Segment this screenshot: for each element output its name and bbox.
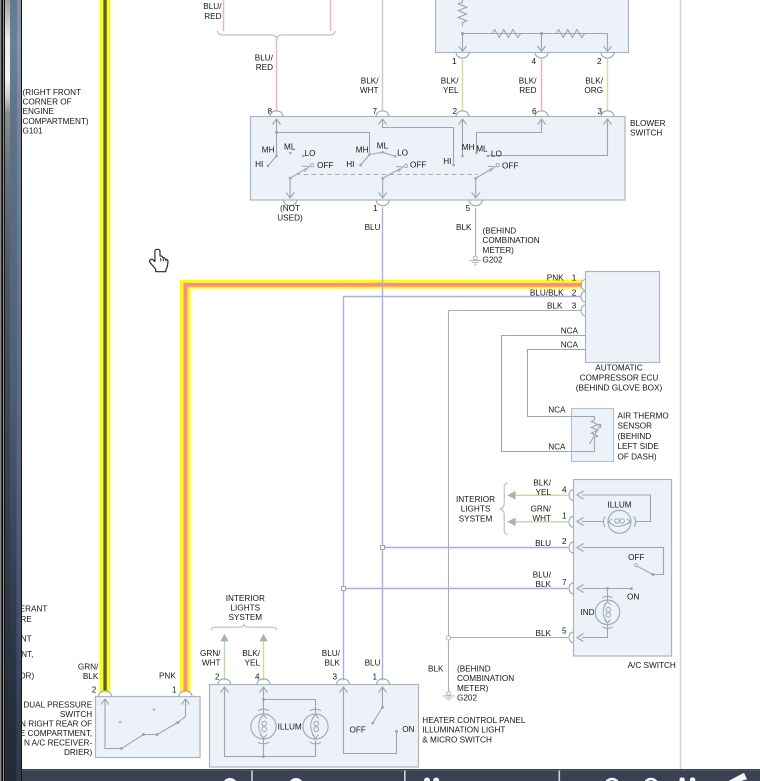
connector arc lamp1 bottom	[258, 742, 269, 744]
svg-text:ILLUM: ILLUM	[278, 722, 302, 731]
lamp ILLUM ac	[608, 510, 631, 533]
svg-text:MH: MH	[462, 143, 475, 152]
svg-text:SYSTEM: SYSTEM	[459, 514, 493, 523]
automatic compressor ECU box U1	[586, 272, 660, 363]
svg-text:PNK: PNK	[159, 671, 176, 680]
svg-text:BLK: BLK	[83, 672, 99, 681]
connector arc blower pin 3	[601, 111, 614, 117]
svg-text:6: 6	[532, 107, 537, 116]
svg-text:CORNER OF: CORNER OF	[23, 98, 72, 107]
svg-text:HEATER CONTROL PANEL: HEATER CONTROL PANEL	[422, 716, 526, 725]
arrow up at pin 2	[459, 119, 467, 125]
connector arc heater pin 2	[218, 679, 231, 685]
wire GRN/BLK highlighted (yellow band)	[100, 0, 111, 692]
svg-text:NT: NT	[21, 634, 32, 643]
wire BLK pin 5 to ground	[475, 208, 477, 257]
connector arc blower pin 5	[469, 200, 482, 206]
svg-text:7: 7	[562, 578, 567, 587]
left window sidebar	[0, 0, 22, 781]
arrow up inside heater pin 3	[340, 687, 348, 693]
connector arc IND bottom	[602, 627, 612, 629]
node junction dot mid	[540, 32, 543, 35]
svg-text:RED: RED	[519, 86, 536, 95]
svg-text:SYSTEM: SYSTEM	[228, 613, 262, 622]
arrow up at pin 3	[604, 119, 612, 125]
svg-text:IND: IND	[580, 608, 594, 617]
node junction dot rail	[262, 755, 265, 758]
wire heater pin2 down to rail	[225, 687, 316, 757]
dashed mechanical link line	[296, 174, 478, 176]
connector arc blower pin 6	[535, 111, 548, 117]
wire heater pin3 to ON contact	[344, 687, 397, 754]
svg-text:LO: LO	[491, 150, 502, 159]
connector arc lamp right	[634, 517, 636, 527]
arrow up BLK/YEL bottom	[259, 634, 267, 642]
svg-text:2: 2	[562, 537, 567, 546]
svg-text:5: 5	[562, 627, 567, 636]
thermistor RT1 zigzag	[591, 420, 597, 446]
svg-text:OFF: OFF	[317, 161, 333, 170]
svg-text:ML: ML	[284, 142, 296, 151]
svg-text:BLU: BLU	[365, 659, 381, 668]
wire BLK/WHT to blower switch pin 7	[382, 0, 384, 112]
cursor hand pointer	[150, 249, 168, 271]
svg-text:5: 5	[465, 204, 470, 213]
node junction circle BLK	[446, 636, 450, 640]
blower resistor box	[436, 0, 629, 53]
wire HI-MH group1	[268, 156, 277, 166]
node junction dot IND	[606, 587, 609, 590]
svg-text:BLU: BLU	[535, 539, 551, 548]
wire sensor bottom	[572, 446, 595, 451]
contact ML group3	[475, 151, 478, 154]
svg-text:BLU: BLU	[365, 223, 381, 232]
svg-text:MH: MH	[262, 146, 275, 155]
svg-text:HI: HI	[443, 157, 451, 166]
contact MH group3	[461, 155, 464, 158]
resistor R2 (horizontal zigzag)	[492, 30, 521, 38]
svg-text:GRN/: GRN/	[78, 662, 99, 671]
wire BLK/YEL stub to interior lights	[515, 494, 569, 496]
contact LO group2	[394, 155, 397, 158]
connector arc lamp left	[603, 517, 605, 527]
connector arc blower NOT USED pin	[284, 200, 297, 206]
contact dot DPS d	[176, 721, 179, 724]
wire pin2 into switch to group3 MH	[462, 119, 464, 156]
contact ON dot heater	[395, 730, 398, 733]
contact dot arm end	[371, 722, 374, 725]
switch arm group1	[290, 168, 306, 178]
svg-text:4: 4	[562, 485, 567, 494]
contact dot DPS b	[142, 733, 145, 736]
contact LO group3	[487, 155, 490, 158]
svg-text:PNK: PNK	[547, 274, 564, 283]
wire AC pin2 to off switch	[582, 548, 664, 575]
svg-text:BLK: BLK	[456, 223, 472, 232]
svg-text:ILLUM: ILLUM	[607, 501, 631, 510]
wire AC pin1 to lamp	[582, 521, 604, 523]
air thermo sensor box	[572, 409, 614, 462]
contact OFF circle ac	[635, 564, 638, 567]
svg-text:YEL: YEL	[443, 86, 459, 95]
switch arm group3	[476, 168, 492, 178]
wire pin7 rail to group3 HI	[383, 119, 454, 165]
bottom taskbar	[22, 769, 760, 781]
wire AC pin4 to lamp loop	[582, 495, 651, 522]
svg-text:SWITCH: SWITCH	[60, 710, 92, 719]
wire NCA lower	[528, 350, 586, 417]
wire heater pin4 to lamps	[263, 687, 265, 714]
switch wafer 2 contacts and arm	[346, 142, 426, 199]
svg-text:OFF: OFF	[410, 161, 426, 170]
connector arc heater pin 3	[337, 679, 350, 685]
switch arm ac off	[638, 567, 653, 575]
connector arc DPS pin 2	[99, 691, 112, 697]
svg-text:1: 1	[172, 685, 177, 694]
svg-text:BLK: BLK	[428, 665, 444, 674]
contact dot DPS floating 1	[119, 721, 122, 724]
arrow down group2	[379, 193, 387, 199]
svg-text:G202: G202	[483, 256, 503, 265]
svg-text:LIGHTS: LIGHTS	[461, 505, 491, 514]
svg-text:NCA: NCA	[548, 443, 566, 452]
connector arc lamp1 top	[258, 709, 269, 711]
dual pressure switch box S1	[96, 697, 201, 758]
arrow up inside heater pin 4	[260, 687, 268, 693]
node junction dot heater	[262, 698, 265, 701]
svg-text:AUTOMATIC: AUTOMATIC	[595, 364, 643, 373]
contact dot DPS a	[120, 747, 123, 750]
svg-text:(BEHIND GLOVE BOX): (BEHIND GLOVE BOX)	[576, 383, 663, 392]
svg-text:METER): METER)	[483, 246, 515, 255]
wire BLK AC pin5 to junction	[451, 637, 568, 639]
svg-text:(RIGHT FRONT: (RIGHT FRONT	[23, 88, 82, 97]
contact HI group3	[452, 164, 455, 167]
wire to IND lamp	[607, 589, 609, 601]
svg-text:OFF: OFF	[628, 553, 644, 562]
arrow up at pin 7	[379, 119, 387, 125]
pivot group1	[289, 177, 292, 180]
wire heater pin1 to pivot	[382, 687, 384, 707]
svg-text:1: 1	[562, 512, 567, 521]
svg-text:1: 1	[372, 673, 377, 682]
arrow up at pin 8	[273, 119, 281, 125]
svg-text:USED): USED)	[277, 214, 303, 223]
connector arc blower pin 8	[270, 111, 283, 117]
wire BLU/RED vertical left	[223, 0, 225, 31]
svg-text:ENGINE: ENGINE	[23, 107, 55, 116]
wire (drop to resistor pin 2)	[607, 34, 609, 52]
svg-text:HI: HI	[346, 160, 354, 169]
wire PNK highlighted horizontal (yellow band)	[180, 280, 582, 289]
arrow down group3	[472, 193, 480, 199]
wire BLK junction to ground	[448, 640, 450, 691]
wire PNK core horizontal	[184, 283, 582, 287]
switch contact dot ac	[652, 573, 655, 576]
contact HI group2	[359, 164, 362, 167]
svg-text:BLK/: BLK/	[585, 77, 603, 86]
svg-text:1: 1	[452, 57, 457, 66]
switch arm heater micro switch	[373, 707, 382, 722]
svg-text:BLK/: BLK/	[361, 77, 379, 86]
svg-text:RED: RED	[204, 12, 221, 21]
connector arc heater pin 1	[377, 679, 390, 685]
connector arc resistor pin 1	[456, 52, 469, 58]
svg-text:2: 2	[92, 685, 97, 694]
arrow up inside heater pin 2	[221, 687, 229, 693]
wire DPS contacts chain	[105, 699, 186, 749]
lamp IND	[595, 600, 619, 624]
pivot group3	[474, 177, 477, 180]
arrow up inside DPS pin 2	[101, 699, 109, 705]
contact ML group2	[381, 151, 384, 154]
svg-text:WHT: WHT	[360, 86, 379, 95]
wire BLU from blower pin 1	[382, 208, 384, 681]
resistor R3 (horizontal zigzag)	[556, 30, 585, 38]
svg-text:BLK/: BLK/	[519, 77, 537, 86]
svg-text:DUAL PRESSURE: DUAL PRESSURE	[23, 701, 92, 710]
connector arc blower pin 1	[376, 200, 389, 206]
svg-text:ILLUMINATION LIGHT: ILLUMINATION LIGHT	[422, 726, 505, 735]
svg-text:ERANT: ERANT	[20, 605, 48, 614]
connector arc AC pin 5	[569, 632, 573, 643]
contact ON dot ac	[630, 587, 633, 590]
svg-text:BLU/: BLU/	[255, 53, 274, 62]
arrow up at pin 6	[538, 119, 546, 125]
wire lamp2 bottom to rail	[315, 741, 317, 757]
svg-text:INTERIOR: INTERIOR	[456, 495, 495, 504]
svg-text:DRIER): DRIER)	[64, 748, 92, 757]
node junction dot left	[461, 32, 464, 35]
node junction dot pin8 rail	[275, 131, 278, 134]
svg-text:(BEHIND: (BEHIND	[483, 227, 517, 236]
svg-text:METER): METER)	[457, 684, 489, 693]
arrow down at resistor pin 1	[459, 46, 467, 51]
pivot group2	[381, 177, 384, 180]
connector arc lamp2 top	[310, 709, 321, 711]
svg-text:COMBINATION: COMBINATION	[483, 236, 540, 245]
connector arc blower pin 7	[376, 111, 389, 117]
arrow left inside AC pin 4	[577, 491, 584, 499]
connector arc resistor pin 2	[601, 52, 614, 58]
connector arc lamp2 bottom	[310, 742, 321, 744]
arrow up GRN/WHT bottom	[220, 634, 228, 642]
connector arc AC pin 4	[569, 490, 573, 501]
lamp ILLUM heater 1	[251, 714, 276, 739]
wire pin8 into switch	[276, 119, 278, 156]
svg-text:WHT: WHT	[532, 514, 551, 523]
wire pivot to pin 5	[475, 178, 477, 197]
svg-text:BLK/: BLK/	[533, 478, 551, 487]
contact MH group2	[368, 153, 371, 156]
svg-text:INTERIOR: INTERIOR	[226, 594, 265, 603]
connector arc heater pin 4	[257, 679, 270, 685]
connector arc resistor pin 4	[535, 52, 548, 58]
svg-text:OF DASH): OF DASH)	[618, 452, 657, 461]
brace interior lights bottom	[211, 625, 276, 631]
wire IND to pin 5	[582, 624, 608, 638]
wire MH-ML-LO arc group2	[370, 152, 396, 156]
wire BLU/BLK to ECU pin 2	[344, 296, 581, 298]
node junction square BLU	[381, 546, 385, 550]
svg-text:COMPARTMENT): COMPARTMENT)	[23, 117, 89, 126]
arrow up inside heater pin 1	[379, 687, 387, 693]
connector arc ECU pin 1	[581, 280, 585, 291]
svg-text:BLK: BLK	[325, 659, 341, 668]
wire BLU/BLK vertical	[343, 297, 345, 681]
svg-text:HI: HI	[255, 160, 263, 169]
svg-text:(NOT: (NOT	[280, 204, 300, 213]
svg-text:COMBINATION: COMBINATION	[457, 674, 514, 683]
contact MH group1	[275, 155, 278, 158]
svg-text:N RIGHT REAR OF: N RIGHT REAR OF	[20, 720, 92, 729]
svg-text:ML: ML	[377, 142, 389, 151]
wire pin3 rail to group3 LO	[488, 119, 608, 156]
svg-text:(BEHIND: (BEHIND	[457, 665, 491, 674]
switch arm group2	[383, 169, 400, 179]
wire BLK/YEL	[462, 59, 464, 112]
blower switch box	[251, 117, 626, 201]
arrow down at resistor pin 4	[538, 46, 546, 51]
connector arc ECU pin 2	[581, 291, 585, 302]
wire BLU branch to AC switch pin 2	[383, 547, 569, 549]
wire NCA upper	[502, 336, 586, 452]
svg-text:NT,: NT,	[21, 650, 33, 659]
wire BLK to ECU pin 3	[449, 311, 581, 636]
wire pivot to pin 1	[382, 178, 384, 197]
svg-text:YEL: YEL	[536, 488, 552, 497]
svg-text:GRN/: GRN/	[531, 505, 552, 514]
switch wafer 1 contacts and arm	[255, 142, 333, 198]
svg-text:BLK: BLK	[536, 629, 552, 638]
wire (drop to resistor pin 4)	[541, 34, 543, 52]
svg-text:2: 2	[597, 57, 602, 66]
svg-text:COMPRESSOR ECU: COMPRESSOR ECU	[580, 373, 659, 382]
node junction square BLU/BLK	[342, 587, 346, 591]
svg-text:BLU/: BLU/	[203, 2, 222, 11]
svg-text:G202: G202	[457, 694, 477, 703]
wire BLK/YEL stub bottom	[263, 641, 265, 680]
connector arc ECU pin 3	[581, 305, 585, 316]
svg-text:GRN/: GRN/	[200, 649, 221, 658]
wire AC pin7 with ON contact	[582, 588, 631, 590]
svg-text:MH: MH	[356, 146, 369, 155]
wire rail pin8 to group2 MH	[277, 133, 370, 155]
svg-text:LO: LO	[397, 149, 408, 158]
heater control panel box	[210, 685, 419, 768]
svg-text:E COMPARTMENT,: E COMPARTMENT,	[20, 729, 92, 738]
svg-text:BLU/BLK: BLU/BLK	[530, 289, 564, 298]
pivot dot heater switch	[381, 706, 384, 709]
arrow left BLK/YEL	[507, 491, 515, 500]
svg-text:SWITCH: SWITCH	[630, 129, 662, 138]
svg-text:ON: ON	[627, 593, 639, 602]
wire GRN/WHT stub bottom	[224, 641, 226, 680]
wire (drop to resistor pin 1)	[462, 34, 464, 52]
svg-text:BLK/: BLK/	[441, 77, 459, 86]
svg-text:BLOWER: BLOWER	[630, 119, 666, 128]
svg-text:OFF: OFF	[502, 162, 518, 171]
svg-text:ORG: ORG	[584, 86, 603, 95]
svg-text:& MICRO SWITCH: & MICRO SWITCH	[422, 735, 492, 744]
wire BLU/RED center drop to blower switch pin 8	[276, 38, 278, 112]
arrow left inside AC pin 5	[577, 634, 584, 642]
contact OFF group2	[404, 164, 407, 167]
arrow down at resistor pin 2	[604, 46, 612, 51]
contact OFF group1	[311, 164, 314, 167]
contact HI group1	[267, 165, 270, 168]
contact dot DPS floating 2	[153, 708, 156, 711]
svg-text:2: 2	[572, 289, 577, 298]
svg-text:RED: RED	[256, 63, 273, 72]
svg-text:1: 1	[572, 274, 577, 283]
svg-text:YEL: YEL	[245, 659, 261, 668]
svg-text:WHT: WHT	[202, 659, 221, 668]
wire branch to lamp2	[264, 700, 316, 715]
svg-text:3: 3	[572, 302, 577, 311]
wire GRN/BLK core	[103, 0, 106, 691]
contact LO group1	[302, 155, 305, 158]
wire into sensor top	[572, 417, 595, 421]
connector arc DPS pin 1	[179, 691, 192, 697]
svg-text:OFF: OFF	[350, 726, 366, 735]
connector arc AC pin 1	[569, 516, 573, 527]
bus bracket joining BLU/RED wires	[217, 31, 335, 38]
wire HI-MH group2	[361, 155, 370, 166]
wire PNK highlighted vertical (yellow band)	[180, 280, 191, 693]
svg-text:BLK: BLK	[547, 302, 563, 311]
resistor R1 (vertical zigzag in blower resistor)	[458, 0, 466, 26]
arrow left inside AC pin 1	[577, 518, 584, 526]
svg-text:(BEHIND: (BEHIND	[618, 432, 652, 441]
arrow left inside AC pin 7	[577, 585, 584, 593]
wire pin6 rail to group3 ML	[477, 119, 542, 153]
svg-text:LO: LO	[305, 149, 316, 158]
wire lamp1 bottom to rail	[263, 739, 265, 757]
arrow left inside AC pin 2	[577, 544, 584, 552]
contact OFF group3	[496, 164, 499, 167]
svg-text:4: 4	[531, 57, 536, 66]
svg-text:AIR THERMO: AIR THERMO	[618, 412, 669, 421]
contact dot DPS c	[156, 733, 159, 736]
wire GRN/WHT stub to interior lights	[515, 521, 569, 523]
svg-text:NCA: NCA	[561, 327, 579, 336]
wire BLK/RED	[541, 59, 543, 112]
arrow down group1	[286, 193, 294, 199]
connector arc AC pin 7	[569, 583, 573, 594]
lamp ILLUM heater 2	[303, 714, 328, 739]
page edge line	[680, 0, 682, 769]
connector arc AC pin 2	[569, 542, 573, 553]
arrow left GRN/WHT	[507, 518, 515, 527]
wire BLK/ORG	[607, 59, 609, 112]
wire BLU/BLK branch to AC switch pin 7	[344, 588, 569, 590]
svg-text:ML: ML	[476, 145, 488, 154]
svg-text:BLU/: BLU/	[533, 570, 552, 579]
wire PNK core vertical	[184, 283, 188, 691]
svg-text:BLK/: BLK/	[242, 649, 260, 658]
wire pivot to NOT USED pin	[289, 178, 291, 197]
wire BLU/RED vertical right	[330, 0, 332, 31]
A/C switch box S2	[574, 480, 672, 657]
svg-text:G101: G101	[23, 126, 43, 135]
svg-text:3: 3	[332, 673, 337, 682]
svg-text:A/C SWITCH: A/C SWITCH	[628, 661, 676, 670]
svg-text:BLK: BLK	[536, 580, 552, 589]
svg-text:NCA: NCA	[561, 341, 579, 350]
svg-text:ON: ON	[402, 725, 414, 734]
svg-text:SENSOR: SENSOR	[618, 422, 653, 431]
